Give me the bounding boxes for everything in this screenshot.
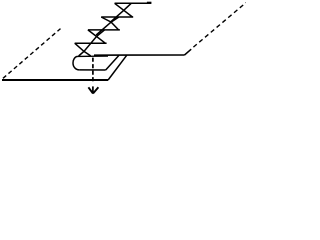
stitch spring slash S1 [110, 3, 131, 22]
stitch spring slash S3 [79, 30, 105, 56]
stitch spring slash S2 [96, 17, 119, 35]
fold cut outer diagonal [108, 55, 127, 80]
fold cut inner diagonal [106, 55, 119, 70]
fold rounded cap (thread loop) [73, 56, 79, 70]
stitch spring horizontal H1 [101, 16, 133, 18]
stitch spring end tick [147, 1, 152, 3]
fold bottom edge line [79, 69, 106, 71]
stitch spring horizontal H0 [115, 2, 152, 4]
fabric right edge dashed (perspective) [193, 3, 246, 48]
stitch spring backslash B0 [115, 3, 133, 17]
stitch spring backslash B3 [75, 43, 91, 56]
stitch spring backslash B2 [88, 30, 105, 43]
fabric top surface line [94, 54, 185, 56]
needle path arrow solid stem [92, 86, 94, 93]
fold crease top line [78, 55, 109, 57]
fabric left edge dashed (perspective) [3, 29, 61, 79]
stitch spring horizontal H2 [88, 29, 120, 31]
stitch spring backslash B1 [101, 17, 118, 30]
needle path arrow dashed stem [92, 58, 94, 82]
fabric bottom front edge [2, 79, 108, 81]
needle path arrowhead right wing [93, 87, 98, 93]
fabric right edge solid corner [185, 49, 192, 55]
stitch spring horizontal H3 [75, 42, 107, 44]
needle path arrowhead left wing [88, 87, 93, 93]
